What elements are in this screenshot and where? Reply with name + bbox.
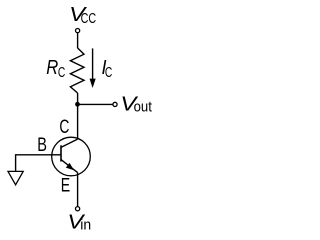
svg-text:out: out — [134, 100, 152, 116]
wire VCC terminal to resistor — [77, 33, 79, 48]
svg-text:CC: CC — [81, 11, 97, 27]
junction collector node — [75, 102, 80, 107]
terminal Vin — [76, 207, 80, 211]
svg-text:E: E — [61, 174, 70, 196]
svg-text:R: R — [46, 57, 58, 79]
svg-text:C: C — [59, 116, 69, 138]
wire node to Vout terminal — [78, 103, 113, 105]
label RC — [46, 57, 65, 81]
wire emitter to Vin terminal — [77, 173, 79, 207]
transistor Q1 — [52, 137, 91, 176]
ground — [8, 171, 23, 184]
label IC — [102, 57, 113, 81]
svg-text:C: C — [105, 65, 112, 81]
wire base to ground — [16, 155, 61, 172]
terminal VCC — [76, 29, 80, 33]
svg-text:B: B — [37, 134, 47, 156]
svg-text:C: C — [58, 65, 65, 81]
svg-text:in: in — [80, 217, 91, 233]
resistor RC — [70, 48, 84, 93]
label Vout — [120, 93, 152, 115]
wire resistor to collector node — [77, 93, 79, 139]
label VCC — [69, 4, 96, 27]
current arrow IC — [90, 48, 96, 88]
terminal Vout — [113, 102, 117, 106]
label Vin — [67, 211, 91, 233]
